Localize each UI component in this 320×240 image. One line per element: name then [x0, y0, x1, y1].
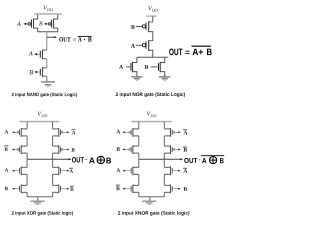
label: OUT = A·B(bar) (NAND) [59, 36, 92, 41]
pmos M5 input Abar right (XNOR) [164, 128, 187, 137]
wire: bottom node (XOR) [27, 196, 52, 198]
nmos M4 input B (NAND) [29, 67, 47, 77]
nmos M8 input Bbar right (XOR) [53, 184, 74, 193]
VDD rail (NOR) [146, 15, 156, 17]
wire: PMOS common drain node (NAND) [37, 31, 58, 33]
VDD text XOR [38, 112, 48, 117]
nmos M7 input Abar right (XNOR) [164, 166, 187, 175]
ground (XOR) [30, 197, 44, 205]
nmos M3 input A (NOR) [119, 57, 137, 76]
wire: right branch vertical (XNOR) [163, 122, 165, 197]
pmos M1 input A left (XOR) [5, 128, 27, 137]
pmos M2 input Bbar left (XOR) [4, 145, 27, 154]
VDD rail (NAND) [34, 13, 62, 15]
ground (XNOR) [142, 197, 156, 205]
wire: left branch vertical (XNOR) [138, 122, 140, 197]
pmos M2 input A (NOR) [131, 40, 153, 57]
wire: output node with arrow (XNOR) [139, 158, 183, 160]
VDD rail (XOR) [20, 121, 60, 123]
pmos M6 input B right (XOR) [53, 145, 75, 154]
nmos M3 input A left (XNOR) [116, 166, 138, 175]
caption (XOR) [12, 211, 73, 215]
wire: VDD stem (NOR) [152, 16, 154, 22]
nmos M4 input B (NOR) [145, 57, 165, 76]
caption (NAND) [12, 93, 77, 97]
wire: bottom node (XNOR) [139, 196, 165, 198]
wire: stem between NMOS A and B (NAND) [46, 59, 48, 68]
wire: output stem upper (NAND) [46, 32, 48, 50]
pmos M2 input B left (XNOR) [116, 145, 138, 154]
wire: output node (NOR) [137, 56, 168, 58]
nmos M8 input B right (XNOR) [164, 184, 187, 193]
wire: left branch vertical (XOR) [26, 122, 28, 197]
pmos M5 input Abar right (XOR) [53, 128, 76, 137]
VDD text XNOR [147, 112, 157, 117]
wire: output node with arrow (XOR) [27, 158, 71, 160]
wire: right branch vertical (XOR) [52, 122, 54, 197]
nmos M4 input Bbar left (XNOR) [116, 184, 139, 193]
nmos M4 input B left (XOR) [5, 184, 27, 193]
pmos M1 input B (NOR) [131, 21, 153, 40]
pmos M1 input A (NAND) [17, 14, 38, 31]
ground right (NOR) [159, 74, 170, 80]
nmos M3 input A (NAND) [29, 49, 47, 59]
nmos M3 input A left (XOR) [5, 166, 27, 175]
label: OUT = A xor B (XOR) [72, 156, 111, 163]
label: OUT = A xnor B (XNOR) [184, 156, 224, 164]
caption (XNOR) [118, 211, 189, 215]
pmos M6 input Bbar right (XNOR) [164, 145, 187, 154]
VDD text NAND [43, 6, 53, 11]
VDD rail (XNOR) [131, 121, 172, 123]
VDD text NOR [148, 6, 158, 11]
caption (NOR) [116, 92, 185, 97]
ground (NAND) [41, 76, 55, 87]
wire: OUT tap with arrow (NAND) [47, 36, 57, 38]
pmos M2 input B (NAND) [39, 14, 58, 31]
ground left (NOR) [131, 74, 142, 80]
label: OUT = A+B(bar) (NOR) [169, 46, 212, 55]
pmos M1 input A left (XNOR) [116, 128, 138, 137]
nmos M7 input Abar right (XOR) [53, 166, 74, 175]
